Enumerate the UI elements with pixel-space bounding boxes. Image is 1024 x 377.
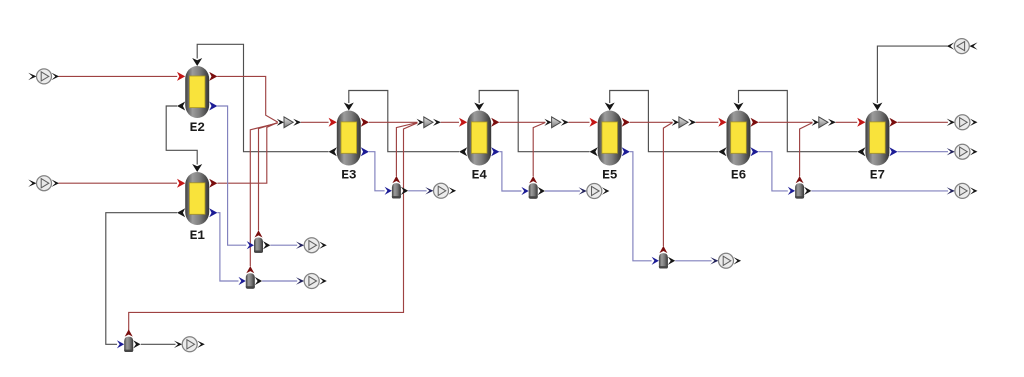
wire mixer M7 to E7 [836, 121, 858, 123]
wire E1 br to valve V2 [217, 213, 238, 281]
mixer M5 [544, 117, 568, 128]
valve V6 [652, 246, 676, 269]
wire E1 out to mixer M3 [217, 123, 277, 184]
stream outlet vapour E7 [947, 115, 978, 130]
svg-text:E2: E2 [190, 120, 206, 135]
wire E4 br to valve V5 [499, 152, 521, 191]
vessel E1 [177, 164, 217, 243]
stream outlet V4 [425, 183, 456, 198]
wire E2 out to mixer M3 [217, 76, 278, 122]
valve V5 [521, 176, 545, 199]
wire V3 to outlet stream [141, 343, 176, 345]
valve V1 [247, 230, 271, 253]
vessel E3 [329, 103, 369, 183]
wire E7 br to outlet stream [898, 151, 948, 153]
stream inlet S2 [28, 176, 59, 191]
wire E5 br to valve V6 [630, 152, 652, 261]
stream outlet V6 [710, 253, 741, 268]
wire E4 bottom to E3 top [349, 91, 459, 152]
wire E7 out to outlet stream [898, 121, 948, 123]
vessel E4 [459, 103, 499, 183]
wire mixer M6 to E6 [696, 121, 719, 123]
wire E3 br to valve V4 [369, 152, 385, 191]
wire V4 to outlet stream [408, 190, 426, 192]
svg-text:E3: E3 [341, 168, 357, 183]
svg-text:E6: E6 [731, 168, 747, 183]
wire E3 out to mixer M4 [369, 121, 418, 123]
wire E5 bottom to E4 top [479, 91, 589, 152]
wire V5 to outlet stream [545, 190, 580, 192]
wire mixer M3 to E3 [301, 121, 329, 123]
wire E1 bottom to valve V3 [106, 213, 177, 345]
wire V1 to outlet stream [270, 244, 297, 246]
svg-text:E7: E7 [870, 168, 885, 183]
mixer M4 [417, 117, 441, 128]
wire E6 out to mixer M7 [759, 121, 813, 123]
svg-text:E4: E4 [472, 168, 488, 183]
wire V6 top to mixer M6 [663, 123, 672, 247]
wire V7 to outlet stream [811, 190, 948, 192]
wire inlet S1 to E2 [59, 75, 178, 77]
wire V1 top to mixer M3 [259, 123, 278, 231]
mixer M7 [812, 117, 836, 128]
wire V2 to outlet stream [262, 280, 297, 282]
wire E2 bottom to E1 top [166, 106, 197, 165]
wire E2 br to valve V1 [217, 106, 246, 245]
wire E5 out to mixer M6 [630, 121, 673, 123]
stream outlet V3 [174, 337, 205, 352]
stream inlet S1 [28, 69, 59, 84]
wire E7 bottom to E6 top [739, 91, 858, 152]
wire V5 top to mixer M5 [533, 123, 545, 177]
mixer M6 [672, 117, 696, 128]
svg-text:E5: E5 [602, 168, 618, 183]
valve V7 [788, 176, 812, 199]
valve V2 [239, 266, 263, 289]
wire E3 bottom to E2 top [197, 44, 328, 151]
vessel E6 [718, 103, 758, 183]
wire V6 to outlet stream [675, 260, 711, 262]
wire inlet-top to E7 [877, 46, 947, 103]
wire inlet S2 to E1 [59, 182, 178, 184]
wire mixer M4 to E4 [441, 121, 459, 123]
vessel E5 [590, 103, 630, 183]
svg-text:E1: E1 [190, 228, 206, 243]
stream outlet V7 [947, 183, 978, 198]
vessel E7 [857, 103, 897, 183]
valve V4 [385, 176, 409, 199]
wire V3 top to mixer M4 [129, 123, 418, 331]
stream outlet liquid E7 [947, 144, 978, 159]
wire E6 bottom to E5 top [610, 91, 719, 152]
valve V3 [117, 329, 141, 352]
wire V4 top to mixer M4 [396, 123, 417, 177]
vessel E2 [177, 58, 217, 135]
wire V7 top to mixer M7 [800, 123, 813, 177]
stream outlet V2 [296, 274, 327, 289]
wire E6 br to valve V7 [759, 152, 788, 191]
stream outlet V5 [579, 184, 610, 199]
wire E4 out to mixer M5 [499, 121, 545, 123]
wire V2 top to mixer M3 [250, 123, 277, 266]
wire mixer M5 to E5 [569, 121, 590, 123]
mixer M3 [277, 117, 301, 128]
stream inlet S3 (top right) [947, 39, 978, 54]
stream outlet V1 [296, 238, 327, 253]
